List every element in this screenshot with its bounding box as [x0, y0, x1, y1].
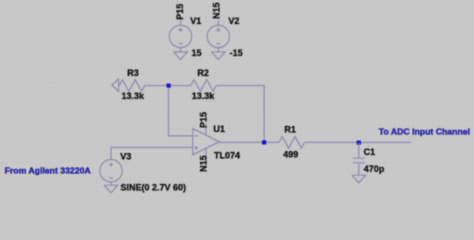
svg-text:From Agilent 33220A: From Agilent 33220A	[5, 165, 92, 175]
value 499	[283, 149, 298, 159]
value -15	[230, 48, 243, 58]
value SINE(0 2.7V 60)	[121, 182, 187, 192]
voltage source V2	[207, 25, 229, 47]
svg-text:P15: P15	[199, 112, 209, 128]
label U1	[213, 124, 225, 134]
net flag P15 at op-amp	[199, 112, 209, 128]
wire: op-amp output row to right end	[219, 141, 411, 143]
node junction at inverting input	[167, 84, 171, 88]
svg-text:SINE(0 2.7V 60): SINE(0 2.7V 60)	[121, 182, 187, 192]
wire: R2 output side to feedback corner down to output node	[216, 86, 264, 143]
svg-text:499: 499	[283, 149, 298, 159]
svg-text:15: 15	[192, 48, 202, 58]
svg-text:13.3k: 13.3k	[192, 91, 216, 101]
wire: V2 top stub	[217, 20, 219, 25]
label R2	[197, 68, 209, 78]
resistor R3	[119, 80, 145, 92]
wire: inverting node down from junction to op-amp	[169, 86, 193, 136]
label R3	[127, 68, 139, 78]
svg-text:V2: V2	[228, 16, 239, 26]
voltage source V1	[169, 25, 191, 47]
svg-text:V3: V3	[120, 151, 131, 161]
wire: V1 top stub	[180, 20, 182, 25]
node junction at C1	[357, 141, 361, 145]
net flag N15 at V2	[211, 2, 221, 19]
label V3	[120, 151, 131, 161]
annotation To ADC Input Channel	[379, 127, 470, 137]
value 470p	[364, 164, 385, 174]
wire: R3 to junction	[145, 85, 191, 87]
svg-text:R2: R2	[197, 68, 209, 78]
value 13.3k (R3)	[122, 91, 146, 101]
svg-text:R1: R1	[284, 125, 296, 135]
capacitor C1	[353, 143, 365, 176]
svg-text:V1: V1	[190, 16, 201, 26]
svg-text:13.3k: 13.3k	[122, 91, 146, 101]
net flag P15 at V1	[175, 4, 185, 20]
ground left of R3 (rotated)	[112, 79, 119, 92]
ground under V2	[211, 48, 225, 60]
label V2	[228, 16, 239, 26]
value TL074	[214, 150, 240, 160]
svg-text:N15: N15	[211, 2, 221, 19]
svg-text:R3: R3	[127, 68, 139, 78]
resistor R1	[279, 137, 305, 149]
label C1	[364, 147, 376, 157]
svg-text:To ADC Input Channel: To ADC Input Channel	[379, 127, 470, 137]
node junction at op-amp output	[262, 140, 266, 144]
annotation From Agilent 33220A	[5, 165, 92, 175]
label V1	[190, 16, 201, 26]
svg-text:U1: U1	[213, 124, 225, 134]
value 15	[192, 48, 202, 58]
svg-text:N15: N15	[199, 155, 209, 172]
op-amp U1	[193, 123, 219, 160]
svg-text:C1: C1	[364, 147, 376, 157]
value 13.3k (R2)	[192, 91, 216, 101]
ground under C1	[352, 175, 366, 183]
label R1	[284, 125, 296, 135]
svg-text:TL074: TL074	[214, 150, 240, 160]
svg-text:-15: -15	[230, 48, 243, 58]
svg-text:P15: P15	[175, 4, 185, 20]
ground under V3	[104, 182, 118, 193]
voltage source V3	[100, 160, 122, 182]
ground under V1	[174, 48, 188, 60]
svg-text:470p: 470p	[364, 164, 385, 174]
resistor R2	[191, 80, 217, 92]
net flag N15 at op-amp	[199, 155, 209, 172]
wire: V3 top to op-amp noninverting input	[111, 147, 193, 159]
